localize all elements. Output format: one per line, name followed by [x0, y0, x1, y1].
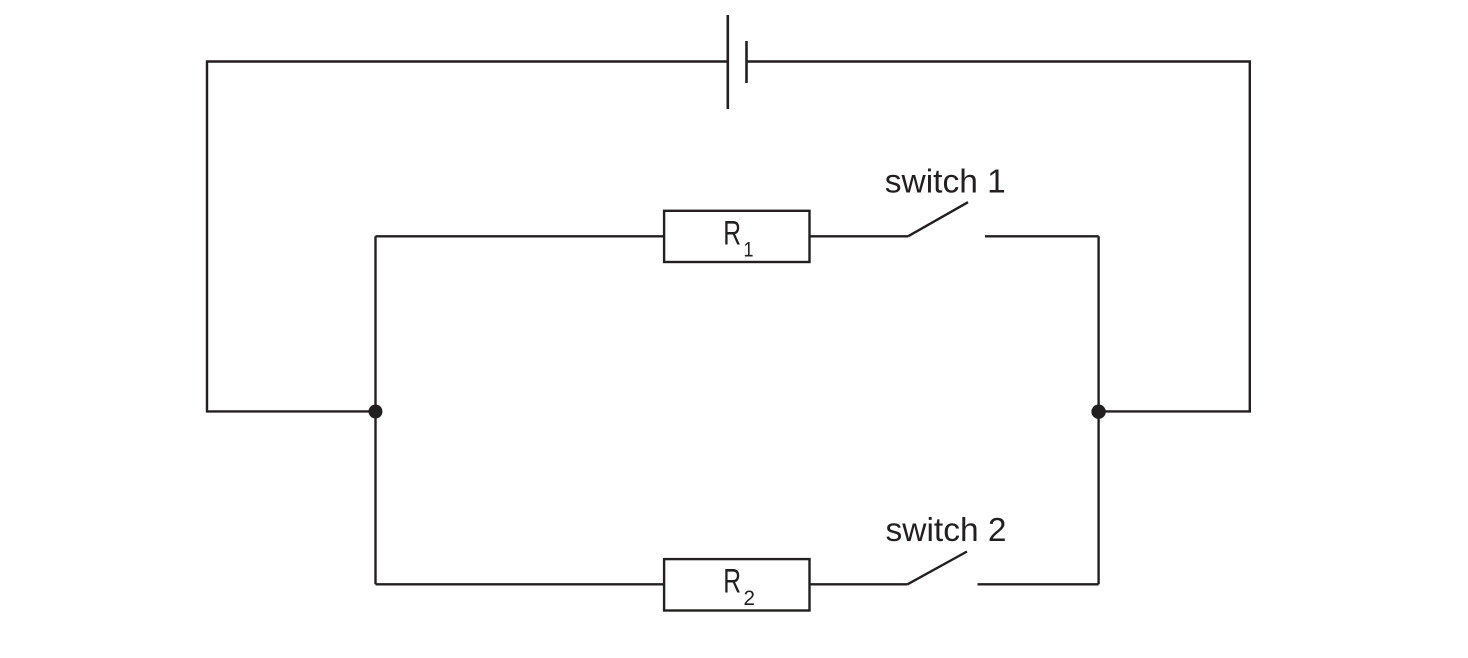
battery B1 short plate (negative) [745, 41, 748, 83]
wire switch 2 right throw to node B [978, 583, 1099, 585]
resistor R1 label [723, 214, 753, 261]
node A junction dot [369, 405, 383, 419]
svg-text:switch 1: switch 1 [885, 164, 1006, 201]
switch S1 blade (open) [908, 202, 968, 236]
svg-text:1: 1 [744, 238, 754, 262]
resistor R1 box [664, 211, 809, 262]
svg-text:2: 2 [744, 586, 756, 610]
battery B1 long plate (positive) [726, 15, 729, 109]
node B junction dot [1091, 405, 1105, 419]
wire switch 1 right throw to node B [985, 235, 1099, 237]
wire top-left from battery negative plate to left corner and down to node A [207, 62, 728, 412]
svg-text:R: R [723, 214, 741, 252]
wire left inner vertical bus [374, 236, 376, 584]
wire top-right from battery short plate to right corner and down to node B [747, 62, 1250, 412]
wire R2 left lead [376, 583, 665, 585]
svg-text:R: R [723, 563, 741, 601]
resistor R2 box [664, 559, 809, 610]
svg-text:switch 2: switch 2 [886, 512, 1007, 549]
wire R2 to switch 2 pivot [810, 583, 908, 585]
resistor R2 label [723, 563, 755, 610]
wire right inner vertical bus [1097, 236, 1099, 584]
switch S2 blade (open) [908, 552, 968, 585]
wire R1 to switch 1 pivot [810, 235, 909, 237]
wire R1 left lead [376, 235, 665, 237]
